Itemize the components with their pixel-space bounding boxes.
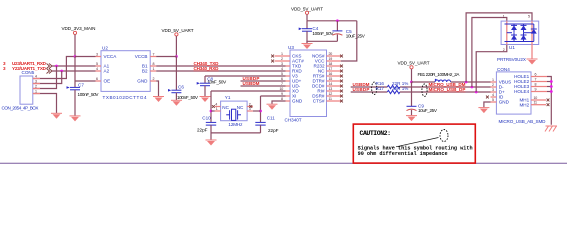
CON4 left stubs	[491, 81, 497, 83]
svg-text:U1: U1	[509, 45, 515, 50]
svg-text:12: 12	[329, 92, 333, 96]
svg-text:15: 15	[329, 77, 333, 81]
svg-text:2: 2	[503, 48, 505, 52]
svg-text:PRTR5V0U2X: PRTR5V0U2X	[497, 57, 526, 62]
MH2 no-connect	[547, 103, 550, 106]
capacitor C9 (10uF_25V)	[407, 104, 438, 116]
svg-text:2: 2	[492, 83, 494, 87]
ground C9	[406, 116, 417, 122]
internal rails	[505, 23, 534, 25]
svg-text:CON5: CON5	[22, 70, 35, 75]
ground U2	[153, 97, 164, 103]
svg-text:10: 10	[534, 96, 538, 100]
svg-text:1: 1	[281, 52, 283, 56]
svg-text:8: 8	[535, 82, 537, 86]
wire 3V3 down to VCCA row	[74, 35, 76, 57]
svg-text:CAUTION2:: CAUTION2:	[360, 130, 392, 137]
ground U3	[267, 104, 278, 110]
U3 pin2 no-connect	[271, 60, 274, 63]
svg-text:22pF: 22pF	[268, 128, 279, 133]
off-page connector UART1_TXD	[3, 66, 52, 73]
svg-text:4: 4	[492, 93, 494, 97]
wire U3 VCC pin19 up to rail	[341, 21, 357, 61]
svg-text:5: 5	[492, 98, 494, 102]
svg-text:7: 7	[535, 77, 537, 81]
svg-text:7: 7	[153, 52, 155, 56]
connector CON5	[2, 70, 41, 111]
wire CON5 pin1 to ground	[33, 94, 57, 114]
svg-text:C10: C10	[202, 116, 211, 121]
svg-text:8: 8	[281, 97, 283, 101]
capacitor C5 (10uF_25V)	[332, 21, 365, 42]
underline CH340_TXD	[194, 65, 219, 67]
diode D2b	[521, 35, 527, 40]
IC U3 CH340T	[271, 45, 343, 123]
svg-text:20: 20	[329, 52, 333, 56]
diff-pair symbol B	[422, 84, 427, 96]
svg-text:NC: NC	[237, 105, 244, 110]
ground C7	[70, 116, 81, 122]
svg-text:13: 13	[329, 87, 333, 91]
svg-text:VDD_5V_UART: VDD_5V_UART	[398, 61, 430, 66]
ground C4/C5	[302, 44, 313, 50]
wire OE row to 3V3 column	[75, 80, 96, 82]
svg-text:3: 3	[492, 88, 494, 92]
CON4 ID no-connect	[486, 96, 489, 99]
svg-text:6: 6	[96, 77, 98, 81]
svg-text:4: 4	[35, 75, 37, 79]
svg-text:CTS#: CTS#	[313, 99, 325, 104]
wire C5 bottom to C4 ground	[307, 41, 337, 43]
wire 5V down to VCCB row	[175, 36, 177, 57]
svg-text:7: 7	[281, 82, 283, 86]
svg-text:100nF_50V: 100nF_50V	[312, 31, 334, 36]
svg-text:11: 11	[329, 97, 333, 101]
svg-text:1: 1	[153, 67, 155, 71]
ground crystal caps	[206, 140, 217, 146]
svg-text:6: 6	[281, 77, 283, 81]
svg-text:90 ohm differential impedance: 90 ohm differential impedance	[358, 151, 448, 157]
svg-text:12MHz: 12MHz	[228, 122, 243, 127]
svg-text:HOLE4: HOLE4	[514, 89, 530, 94]
svg-text:1: 1	[35, 90, 37, 94]
wire U1 GND	[531, 45, 533, 59]
svg-text:MICRO_USB_AB_SMD: MICRO_USB_AB_SMD	[499, 119, 547, 124]
node DP/U1	[475, 91, 478, 94]
wire VCCA row	[75, 56, 96, 58]
svg-text:NC: NC	[222, 105, 229, 110]
node HOLE2	[550, 80, 553, 83]
capacitor C6	[168, 85, 199, 100]
svg-text:A2: A2	[104, 69, 110, 74]
svg-text:C7: C7	[78, 83, 84, 88]
node junction TXD/CON5	[60, 70, 63, 73]
svg-text:17: 17	[329, 67, 333, 71]
node HOLE3	[550, 85, 553, 88]
diode D1a	[511, 25, 517, 30]
off-page connector UART1_RXD	[3, 61, 52, 68]
wire Y1 pin1	[211, 110, 215, 112]
svg-text:10: 10	[280, 87, 284, 91]
svg-text:2: 2	[153, 77, 155, 81]
svg-text:19: 19	[329, 57, 333, 61]
wire FB1 to CON4 VBUS	[451, 81, 491, 83]
svg-text:22R 1%: 22R 1%	[392, 86, 408, 91]
svg-text:5: 5	[281, 72, 283, 76]
crystal Y1 12MHz	[212, 95, 253, 127]
capacitor C11	[255, 116, 278, 133]
svg-text:B2: B2	[142, 69, 148, 74]
svg-text:VCCA: VCCA	[104, 54, 118, 59]
capacitor C4	[299, 21, 335, 43]
svg-text:8: 8	[153, 62, 155, 66]
U3 pin1 no-connect	[271, 55, 274, 58]
wire C9 column	[411, 82, 413, 106]
U3 left pin stubs	[275, 55, 291, 57]
svg-text:FB1 220R_100MHz_2A: FB1 220R_100MHz_2A	[418, 72, 461, 77]
svg-text:OE: OE	[104, 79, 111, 84]
svg-text:CON_2054_4P_BOX: CON_2054_4P_BOX	[2, 106, 39, 111]
diff-pair symbol A	[372, 82, 377, 94]
svg-text:GND: GND	[137, 79, 148, 84]
node Y1 pin3	[259, 110, 262, 113]
ground C8	[200, 97, 211, 103]
svg-text:11: 11	[534, 101, 538, 105]
wire RXD drop to CON5 pin2	[33, 66, 57, 89]
svg-text:MH2: MH2	[519, 102, 529, 107]
svg-text:TXB0102DCTTG4: TXB0102DCTTG4	[103, 95, 147, 100]
power VDD_5V_UART (USB side)	[398, 61, 430, 69]
wire XO row to crystal	[211, 90, 286, 92]
node VBUS/U1	[465, 81, 468, 84]
diode D2a	[521, 25, 527, 30]
U3 right pin stubs	[327, 55, 341, 57]
node C5 tap	[336, 19, 339, 22]
ferrite bead FB1 220R_100MHz_2A	[418, 72, 461, 82]
ground U1	[527, 59, 538, 65]
wire joining C10/C11 bottoms	[211, 132, 261, 134]
svg-text:2: 2	[35, 85, 37, 89]
svg-text:9: 9	[535, 87, 537, 91]
wire 5V down to C6	[175, 57, 177, 91]
wire V3 row to C8	[205, 75, 286, 77]
svg-text:VDD_5V_UART: VDD_5V_UART	[162, 28, 194, 33]
wire XI column to Y1 pin3 / C11	[260, 96, 262, 122]
svg-text:14: 14	[329, 82, 333, 86]
wire TXD drop to CON5 pin3	[33, 71, 62, 84]
wire XI row to crystal	[261, 95, 286, 97]
wire USBDP to R17	[351, 91, 388, 93]
U2 pin stubs left	[96, 56, 102, 58]
MH1 no-connect	[547, 99, 550, 102]
ground CON5	[51, 113, 62, 119]
svg-text:3: 3	[281, 62, 283, 66]
wire UART1_TXD row to U2.A2	[52, 70, 96, 72]
svg-text:VCCB: VCCB	[135, 54, 148, 59]
svg-text:1: 1	[492, 78, 494, 82]
wire 5V drop to rail	[306, 14, 308, 20]
svg-text:10nF_50V: 10nF_50V	[207, 79, 227, 84]
wire 3V3 down to C7	[74, 57, 76, 88]
wire USBDM to R16	[351, 86, 388, 88]
svg-text:4: 4	[96, 67, 98, 71]
chassis ground	[545, 126, 557, 132]
svg-text:CON4: CON4	[497, 67, 510, 72]
internal I/O through lines	[506, 21, 508, 44]
wire VBUS row through FB1	[412, 81, 436, 83]
IC U2 TXB0102DCTTG4	[96, 46, 157, 101]
svg-text:10uF_25V: 10uF_25V	[418, 108, 438, 113]
node 5V/VBUS/C9	[410, 81, 413, 84]
power VDD_5V_UART (U3 side)	[291, 7, 323, 15]
svg-text:100nF_50V: 100nF_50V	[78, 92, 100, 97]
wire 5V down to VBUS row	[411, 69, 413, 82]
wire U2 GND to ground	[156, 81, 158, 96]
node HOLE4	[550, 90, 553, 93]
diode D1b	[511, 35, 517, 40]
node junction RXD/CON5	[55, 65, 58, 68]
svg-text:1: 1	[503, 14, 505, 18]
svg-text:CH340_RXD: CH340_RXD	[194, 66, 220, 71]
wire VBUS up to U1 VCC rail	[466, 13, 532, 82]
svg-text:5: 5	[528, 14, 530, 18]
svg-text:16: 16	[329, 72, 333, 76]
svg-text:6: 6	[535, 72, 537, 76]
svg-text:U2: U2	[102, 46, 108, 51]
wire UART1_RXD row to U2.A1	[52, 65, 96, 67]
svg-text:3: 3	[96, 52, 98, 56]
resistor R16 22R	[376, 81, 409, 89]
svg-text:18: 18	[329, 62, 333, 66]
CON4 right stubs	[531, 76, 547, 78]
power VDD_3V3_MAIN	[62, 26, 96, 35]
svg-text:GND: GND	[292, 99, 303, 104]
wire UD+	[241, 80, 286, 82]
svg-text:VDD_3V3_MAIN: VDD_3V3_MAIN	[62, 26, 96, 31]
wire R17 to CON4 D+	[400, 91, 491, 93]
ground C6	[171, 100, 182, 106]
wire VCCB row	[156, 56, 176, 58]
svg-text:U3: U3	[288, 45, 294, 50]
wire C4/C5 rail	[307, 20, 357, 22]
node DM/U1	[471, 86, 474, 89]
svg-text:C6: C6	[178, 85, 184, 90]
svg-text:4: 4	[281, 67, 283, 71]
caution note CAUTION2	[353, 124, 475, 163]
wire XO column to Y1 pin1 / C10	[210, 91, 212, 122]
capacitor C7	[67, 83, 100, 116]
capacitor C8	[197, 76, 227, 96]
svg-text:22pF: 22pF	[197, 127, 208, 132]
wire CON4 GND to ground	[484, 102, 491, 107]
svg-text:3: 3	[3, 66, 6, 71]
svg-text:10uF_25V: 10uF_25V	[346, 33, 366, 38]
connector CON4 MICRO_USB_AB_SMD	[486, 67, 549, 124]
svg-text:R17: R17	[376, 86, 385, 91]
wire R16 to CON4 D-	[400, 86, 491, 88]
node 3V3/VCCA	[74, 55, 77, 58]
svg-text:Y1: Y1	[225, 95, 231, 100]
sheet border bottom line	[0, 162, 567, 164]
wire DP to U1 I/O2 (bottom)	[476, 45, 507, 93]
ground CON4	[478, 108, 489, 114]
svg-text:4: 4	[215, 103, 217, 107]
svg-text:2: 2	[281, 57, 283, 61]
capacitor C10	[197, 116, 216, 140]
U3 right no-connect marks	[340, 55, 343, 58]
wire CON5 pin4 to 3V3 rail	[33, 57, 75, 79]
svg-text:C11: C11	[267, 116, 276, 121]
wire CH340_TXD (U2.B1 to U3.TXD)	[156, 65, 285, 67]
svg-text:GND: GND	[499, 100, 510, 105]
power VDD_5V_UART (U2 side)	[162, 28, 194, 36]
node 5V/VCCB	[175, 55, 178, 58]
svg-text:MICRO_USB_DP: MICRO_USB_DP	[429, 87, 466, 92]
wire U3 GND to ground	[272, 101, 286, 104]
wire UD-	[241, 85, 286, 87]
wire DM up to U1 I/O1 rail	[472, 18, 507, 88]
wire CH340_RXD (U2.B2 to U3.RXD)	[156, 70, 285, 72]
svg-text:5: 5	[96, 62, 98, 66]
svg-text:9: 9	[281, 92, 283, 96]
resistor R17 22R	[376, 86, 409, 94]
zener D3	[531, 29, 537, 34]
TVS array U1 PRTR5V0U2X	[497, 14, 539, 62]
node Y1 pin1	[210, 110, 213, 113]
svg-text:100nF_50V: 100nF_50V	[177, 95, 199, 100]
svg-text:3: 3	[35, 80, 37, 84]
svg-text:CH340T: CH340T	[285, 118, 302, 123]
wire Y1 pin3	[253, 110, 261, 112]
wire HOLE bus	[547, 77, 551, 125]
svg-text:1: 1	[216, 107, 218, 111]
U2 pin stubs right	[150, 56, 156, 58]
